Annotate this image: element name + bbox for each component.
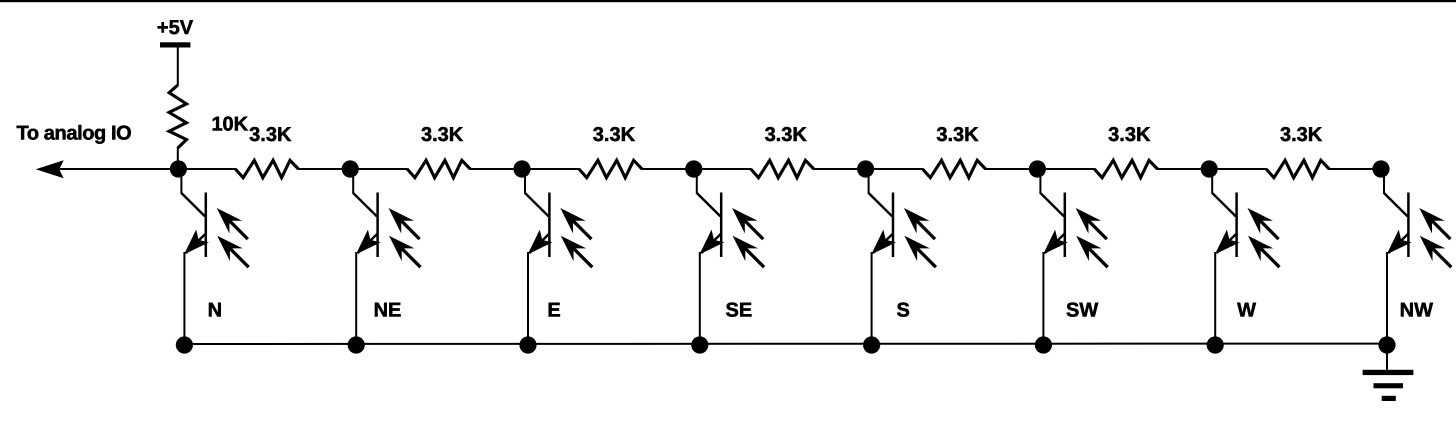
phototransistor Q7 (W) [1201,160,1286,353]
wire: main analog bus (top horizontal) [45,168,1381,170]
svg-text:E: E [547,299,560,321]
svg-text:3.3K: 3.3K [1108,124,1151,146]
phototransistor Q4 (SE) [685,160,770,353]
svg-text:3.3K: 3.3K [1280,124,1323,146]
svg-text:W: W [1237,299,1256,321]
phototransistor Q3 (E) [513,160,598,353]
wire: bottom ground bus [184,343,1387,345]
resistor R1 10K (vertical) [169,85,186,169]
power +5V symbol [157,17,194,86]
svg-text:SW: SW [1066,299,1098,321]
svg-text:3.3K: 3.3K [249,124,292,146]
svg-text:3.3K: 3.3K [765,124,808,146]
svg-text:SE: SE [726,299,753,321]
phototransistor Q1 (N) [170,160,255,353]
svg-text:To analog IO: To analog IO [17,123,132,145]
svg-text:NW: NW [1400,299,1433,321]
phototransistor Q6 (SW) [1029,160,1114,353]
resistor R3 3.3K [407,160,470,177]
resistor R4 3.3K [579,160,642,177]
resistor R8 3.3K [1266,160,1329,177]
resistor R2 3.3K [235,160,298,177]
resistor R7 3.3K [1094,160,1157,177]
node: analog IO output arrow [36,160,64,178]
phototransistor Q2 (NE) [342,160,427,353]
resistor R6 3.3K [923,160,986,177]
svg-text:3.3K: 3.3K [421,124,464,146]
svg-text:S: S [897,299,910,321]
svg-text:NE: NE [374,299,402,321]
svg-text:+5V: +5V [157,17,194,39]
phototransistor Q8 (NW) [1372,160,1456,353]
phototransistor Q5 (S) [857,160,942,353]
svg-text:3.3K: 3.3K [593,124,636,146]
ground [1363,344,1414,401]
svg-text:10K: 10K [211,114,248,136]
resistor R5 3.3K [751,160,814,177]
svg-text:3.3K: 3.3K [936,124,979,146]
svg-text:N: N [208,299,222,321]
